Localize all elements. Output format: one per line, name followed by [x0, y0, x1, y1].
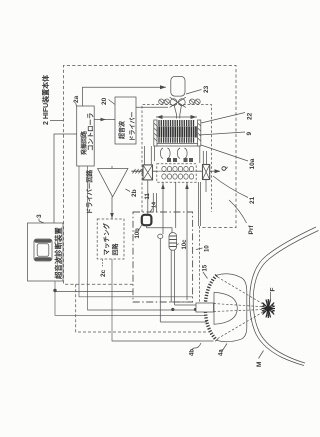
rail shaft through carriage	[153, 170, 203, 172]
HIFU dish arc 15 (dotted thick)	[205, 275, 216, 340]
arrowhead into driver	[101, 118, 107, 122]
svg-text:Q: Q	[221, 166, 228, 171]
leader 23	[186, 90, 202, 95]
pill wires down	[170, 250, 172, 302]
carriage signal wires downward	[162, 182, 164, 234]
diagnostic unit probe wire with junction	[55, 281, 206, 315]
leader M	[259, 351, 264, 359]
svg-text:4a: 4a	[219, 349, 225, 356]
controller down-wire B	[88, 166, 196, 310]
svg-text:23: 23	[203, 85, 210, 93]
svg-text:10a: 10a	[249, 158, 256, 169]
left bearing suspension legs	[143, 146, 145, 165]
transducer array lower teeth	[159, 138, 194, 143]
transducer array upper teeth	[159, 120, 194, 126]
svg-text:ドライバー: ドライバー	[129, 112, 137, 142]
svg-text:11: 11	[145, 192, 151, 199]
leader 10c	[177, 244, 179, 246]
leader 3	[39, 219, 44, 224]
wire amp to matching box with arrowhead	[111, 197, 113, 219]
imaging transducer carriage dashed box 21	[157, 164, 196, 182]
text labels (rotated 90 CCW)	[36, 74, 277, 367]
wire driver to gimbal	[136, 106, 168, 108]
small ring on wire	[158, 234, 163, 238]
svg-text:超音波: 超音波	[118, 120, 126, 140]
svg-text:超音波診断装置: 超音波診断装置	[54, 227, 63, 280]
svg-text:2c: 2c	[100, 269, 107, 277]
leader 2c	[102, 260, 104, 268]
svg-text:2a: 2a	[73, 95, 80, 103]
ultrasound diagnostic apparatus box 3	[28, 223, 64, 281]
svg-text:3: 3	[36, 214, 43, 218]
svg-text:Prf: Prf	[248, 225, 255, 235]
leader 9	[199, 132, 245, 135]
svg-text:15: 15	[203, 264, 209, 271]
display icon top band	[35, 239, 52, 242]
right bearing suspension legs	[202, 151, 204, 165]
svg-text:ドライバー回路: ドライバー回路	[85, 169, 94, 214]
focal point starburst F	[262, 299, 276, 318]
svg-text:20: 20	[101, 97, 108, 105]
gimbal X cross	[170, 97, 186, 107]
cable assembly chain-line box 10	[133, 212, 193, 302]
array side wall right hatched	[198, 120, 201, 146]
Q axis arrow	[210, 170, 220, 172]
svg-text:コントローラ: コントローラ	[87, 113, 95, 151]
bearing wire down to label 11 and bead	[147, 180, 149, 215]
leader 10b	[139, 224, 143, 231]
focus rays dashed	[214, 277, 266, 339]
matching output wire	[112, 259, 214, 341]
wire controller to ultrasonic driver	[94, 119, 115, 121]
controller down-wire A	[79, 166, 193, 297]
short wire below right bearing	[205, 180, 207, 193]
hatched mount stub left of rail	[132, 170, 144, 172]
matching circuit dashed box 2c	[97, 219, 124, 259]
svg-text:F: F	[270, 288, 277, 292]
display icon inner screen	[37, 244, 49, 256]
leader 2a	[76, 103, 77, 107]
svg-text:4b: 4b	[190, 349, 196, 356]
scan direction double arrow	[156, 116, 197, 118]
svg-text:回路: 回路	[112, 242, 120, 255]
scan head inner dashed enclosure	[142, 105, 212, 212]
right bearing block with X	[203, 165, 210, 180]
leader 4a	[222, 344, 228, 353]
controller box 2a	[77, 106, 95, 166]
leader 20	[109, 100, 116, 105]
svg-text:マッチング: マッチング	[102, 223, 111, 256]
junction dot	[53, 289, 56, 292]
svg-text:10: 10	[205, 245, 211, 252]
display icon bottom band	[35, 257, 52, 260]
pill wires to stem	[171, 301, 193, 303]
svg-text:21: 21	[249, 196, 256, 204]
leader 14	[150, 209, 153, 213]
probe outline	[217, 274, 247, 342]
transducer array main band	[155, 126, 199, 137]
conductor pill 10c hatched	[169, 233, 177, 251]
ring wire down	[159, 239, 161, 323]
amplifier triangle 2b (driver circuit)	[98, 169, 128, 197]
svg-text:10b: 10b	[135, 228, 141, 239]
leader 4b wavy	[192, 343, 202, 350]
array base plate	[154, 142, 200, 144]
array side wall left hatched	[154, 120, 157, 146]
gimbal stem to array	[174, 106, 176, 119]
curl terminals	[167, 158, 193, 162]
right bearing pair	[190, 99, 201, 104]
arrowhead into motor	[160, 85, 166, 89]
wire controller to scan motor	[83, 87, 167, 106]
svg-text:14: 14	[152, 201, 158, 208]
wire controller to diagnostic unit	[54, 134, 77, 223]
leader 2b	[126, 189, 131, 192]
ring wire to dish	[160, 321, 207, 323]
svg-text:22: 22	[247, 112, 254, 120]
leader Prf	[229, 200, 247, 223]
carriage elements row 2	[162, 174, 166, 179]
body skin double curve	[250, 227, 316, 366]
dashed aux wire	[76, 284, 209, 332]
wire controller to amp input	[111, 166, 113, 169]
left bearing pair	[159, 99, 170, 104]
branch wire to cable box	[55, 291, 133, 293]
imaging dome in probe	[214, 292, 237, 324]
cable curls under array	[160, 148, 170, 159]
svg-text:10c: 10c	[182, 239, 188, 250]
gimbal joint circles	[170, 99, 177, 106]
scan motor 23	[171, 76, 185, 96]
ultrasonic driver box 20	[115, 97, 136, 144]
guide wires from right bearing down	[197, 182, 199, 226]
carriage elements row 1	[162, 166, 194, 179]
leader 10a	[201, 145, 248, 161]
rail shaft	[143, 170, 212, 172]
leader 15	[203, 272, 208, 279]
leader 22	[201, 113, 245, 124]
leader 21	[213, 176, 248, 198]
display icon outer	[34, 239, 52, 261]
cable bead 10b	[142, 215, 152, 225]
svg-text:M: M	[256, 362, 263, 367]
svg-text:2 HIFU装置本体: 2 HIFU装置本体	[41, 74, 50, 125]
leader 2 to dashed box	[50, 120, 64, 122]
svg-text:2b: 2b	[131, 189, 138, 197]
leader 10	[196, 248, 203, 250]
svg-text:9: 9	[246, 132, 253, 136]
bead to pill wire	[147, 225, 172, 232]
probe stem	[196, 303, 214, 312]
case wall wires down to cable box	[152, 193, 154, 212]
case side walls	[154, 146, 156, 161]
junction dots near stem	[171, 308, 174, 311]
HIFU device main body dashed enclosure 2	[64, 65, 237, 284]
left bearing block with X	[143, 165, 153, 180]
leader F	[270, 292, 272, 299]
